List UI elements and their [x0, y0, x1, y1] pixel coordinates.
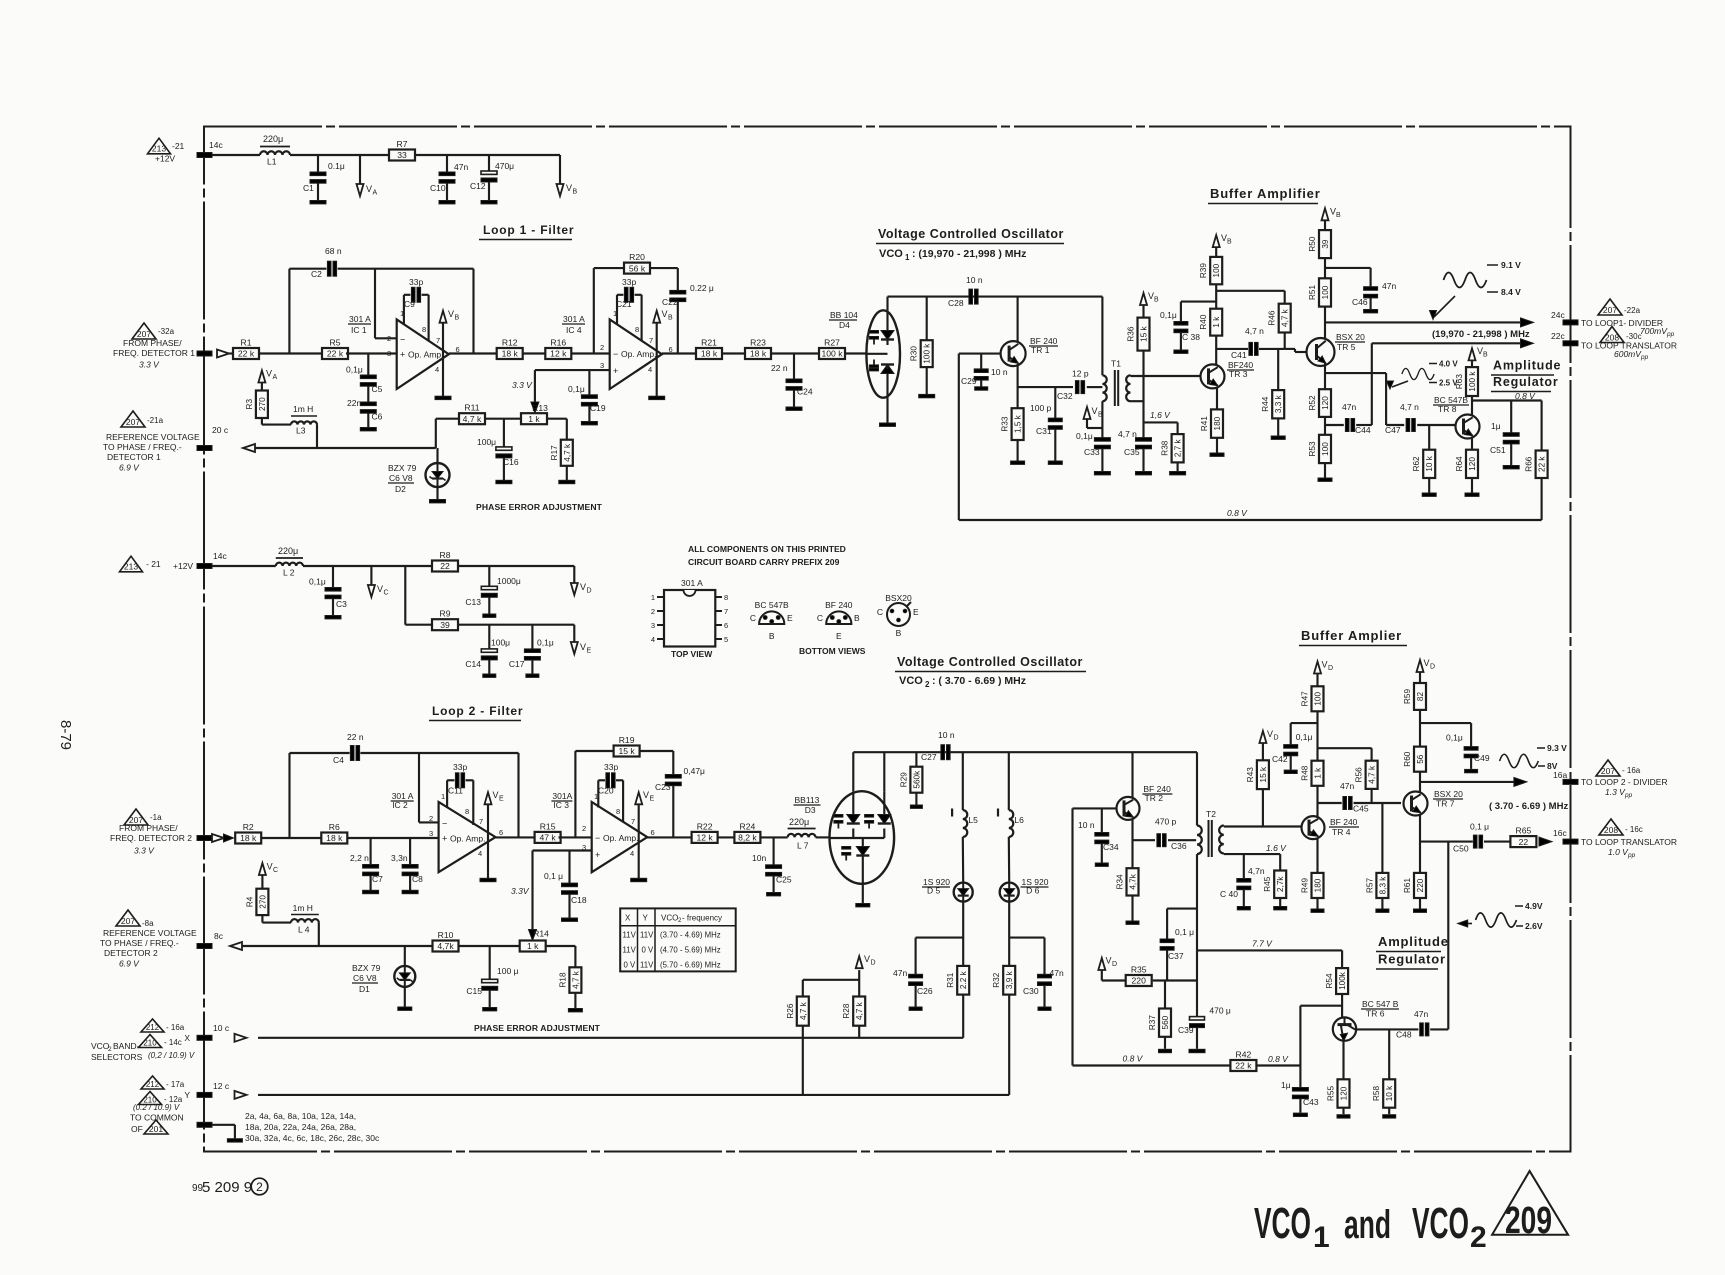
document number 995 209 9 2 — [192, 1178, 268, 1196]
labels BB113 D3 — [794, 795, 821, 815]
resistor R46 — [1268, 304, 1291, 333]
svg-text:R9: R9 — [440, 609, 451, 619]
title Voltage Controlled Oscillator VCO2 — [895, 655, 1086, 689]
resistor R3 — [245, 391, 268, 419]
capacitor C15 100u — [466, 946, 518, 1011]
supply VD at R28 — [856, 954, 876, 968]
svg-text:R39: R39 — [1199, 263, 1208, 278]
svg-text:T2: T2 — [1206, 809, 1216, 819]
svg-text:R15: R15 — [540, 821, 556, 831]
svg-text:R26: R26 — [786, 1003, 795, 1018]
svg-text:-32a: -32a — [158, 327, 175, 336]
svg-text:TR 2: TR 2 — [1145, 793, 1164, 803]
svg-text:B: B — [1227, 239, 1232, 246]
svg-text:100 k: 100 k — [923, 343, 932, 364]
svg-text:0.1μ: 0.1μ — [328, 161, 345, 171]
resistor R37 560 — [1164, 981, 1166, 1009]
supply VB at IC4 — [649, 309, 673, 400]
wire pin2 to feedback — [375, 269, 397, 339]
wire R40 to TR3 collector — [1215, 336, 1217, 365]
transistor TR7 BSX20 — [1404, 792, 1428, 816]
capacitor C41 4.7n wire — [1216, 326, 1306, 360]
svg-text:8-79: 8-79 — [57, 720, 74, 750]
svg-text:R7: R7 — [397, 139, 408, 149]
svg-text:R21: R21 — [701, 338, 717, 348]
resistor R23 — [745, 338, 771, 360]
capacitor C38 0.1u — [1160, 302, 1216, 354]
resistor R6 — [321, 822, 347, 844]
wire — [846, 352, 867, 354]
resistor R11 — [459, 403, 485, 425]
input pin -1a from phase detector 2 — [197, 834, 234, 842]
svg-text:560: 560 — [1161, 1015, 1170, 1029]
labels BSX20 TR5 — [1335, 332, 1365, 352]
svg-text:210: 210 — [143, 1038, 157, 1047]
wire — [259, 352, 322, 354]
svg-text:R22: R22 — [697, 821, 713, 831]
svg-text:6.9 V: 6.9 V — [119, 463, 140, 473]
svg-text:209: 209 — [1505, 1200, 1552, 1242]
IC4 pin3 reference wire 3.3V — [512, 370, 610, 413]
svg-text:(5.70 - 6.69) MHz: (5.70 - 6.69) MHz — [660, 961, 721, 970]
connector triangle 213 -21 +12V — [148, 138, 185, 163]
svg-text:47n: 47n — [1414, 1009, 1428, 1019]
svg-text:R48: R48 — [1301, 765, 1310, 780]
capacitor C44 47n — [1325, 343, 1372, 435]
svg-text:R36: R36 — [1127, 326, 1136, 341]
resistor R1 — [233, 338, 259, 360]
svg-text:R18: R18 — [558, 972, 567, 987]
IC3 pin3 wire and R14 arrow — [511, 851, 592, 941]
resistor R28 — [842, 997, 865, 1026]
resistor R45 2.7k — [1266, 843, 1287, 871]
wire R51 to TR5 and 24c output — [1325, 307, 1534, 339]
svg-text:6: 6 — [724, 621, 728, 630]
svg-text:R54: R54 — [1325, 973, 1334, 988]
svg-text:208: 208 — [1604, 825, 1618, 835]
inductor L4 1mH — [291, 903, 319, 935]
svg-text:R23: R23 — [750, 338, 766, 348]
resistor R22 — [692, 821, 718, 843]
svg-text:301 A: 301 A — [681, 578, 703, 588]
svg-text:1.0 V: 1.0 V — [1608, 847, 1629, 857]
label TO LOOP TRANSLATOR — [1581, 341, 1677, 362]
labels BC547B TR6 — [1361, 999, 1399, 1019]
resistor R48 — [1301, 761, 1324, 786]
svg-text:R16: R16 — [550, 338, 566, 348]
svg-text:R64: R64 — [1455, 456, 1464, 471]
wire — [718, 836, 734, 838]
svg-text:1000μ: 1000μ — [497, 576, 521, 586]
resistor R44 — [1261, 390, 1284, 418]
svg-text:BZX 79: BZX 79 — [352, 963, 381, 973]
svg-text:4,7 n: 4,7 n — [1118, 429, 1137, 439]
zener diode D2 BZX79 C6V8 — [426, 448, 450, 503]
svg-text:0,1μ: 0,1μ — [309, 577, 326, 587]
svg-text:: (19,970 - 21,998 ) MHz: : (19,970 - 21,998 ) MHz — [912, 248, 1026, 260]
svg-text:Amplitude: Amplitude — [1493, 359, 1561, 373]
svg-text:2.6V: 2.6V — [1525, 921, 1543, 931]
wire — [559, 836, 592, 838]
svg-text:C37: C37 — [1168, 951, 1184, 961]
resistor R49 — [1301, 873, 1324, 898]
title Loop 2 - Filter — [429, 704, 523, 721]
svg-text:10 n: 10 n — [1078, 820, 1095, 830]
label FROM PHASE/FREQ. DETECTOR 2 — [110, 823, 192, 856]
svg-text:V: V — [448, 309, 454, 319]
svg-text:C25: C25 — [776, 875, 792, 885]
resistor R62 — [1412, 450, 1435, 478]
capacitor C7 2.2n — [350, 838, 383, 894]
capacitor C33 0.1u — [1076, 401, 1110, 475]
svg-text:0,1 μ: 0,1 μ — [1175, 927, 1194, 937]
svg-text:9.3 V: 9.3 V — [1547, 743, 1567, 753]
transformer T1 — [1102, 297, 1130, 406]
reference 20c wire — [197, 425, 436, 452]
svg-text:B: B — [455, 315, 460, 322]
svg-text:(0.2 / 10.9) V: (0.2 / 10.9) V — [133, 1103, 180, 1112]
svg-text:−: − — [595, 833, 600, 843]
svg-text:E: E — [587, 648, 592, 655]
svg-text:4,7 k: 4,7 k — [463, 414, 482, 424]
capacitor C27 10n — [921, 730, 955, 762]
svg-text:14c: 14c — [209, 140, 223, 150]
resistor R35 — [1126, 965, 1152, 987]
svg-text:3: 3 — [600, 361, 604, 370]
svg-text:1 k: 1 k — [527, 941, 539, 951]
svg-text:DETECTOR 2: DETECTOR 2 — [104, 948, 158, 958]
svg-text:TR 6: TR 6 — [1366, 1009, 1385, 1019]
svg-text:D: D — [1430, 664, 1435, 671]
svg-text:BOTTOM VIEWS: BOTTOM VIEWS — [799, 646, 866, 656]
op-amp IC4 +- and text — [613, 349, 656, 376]
D4 ground — [880, 423, 896, 426]
svg-text:R8: R8 — [440, 550, 451, 560]
svg-text:18 k: 18 k — [701, 349, 718, 359]
connector triangle 207 -8a — [116, 910, 154, 928]
svg-text:FREQ. DETECTOR 1: FREQ. DETECTOR 1 — [113, 348, 195, 358]
feedback capacitor C4 22n loop — [290, 732, 519, 838]
svg-text:PHASE ERROR ADJUSTMENT: PHASE ERROR ADJUSTMENT — [474, 1023, 601, 1033]
labels BF240 TR1 — [1029, 336, 1058, 355]
svg-text:−: − — [442, 819, 447, 829]
R47 wires and C42 branch — [1291, 711, 1318, 760]
labels BSX20 TR7 — [1433, 789, 1463, 809]
svg-text:pp: pp — [1624, 792, 1633, 799]
svg-text:2: 2 — [256, 1180, 263, 1194]
wire R60 to TR7 and 16a output — [1420, 772, 1527, 793]
svg-text:(0,2 / 10.9) V: (0,2 / 10.9) V — [148, 1051, 195, 1060]
svg-text:C18: C18 — [571, 895, 587, 905]
resistor R18 — [558, 967, 581, 993]
svg-text:T1: T1 — [1111, 359, 1121, 369]
capacitor C25 10n — [752, 837, 792, 896]
svg-text:8: 8 — [616, 807, 620, 816]
resistor R7 — [389, 139, 415, 161]
capacitor C30 47n — [1023, 938, 1064, 1011]
svg-text:R19: R19 — [619, 735, 635, 745]
svg-text:47n: 47n — [1342, 402, 1356, 412]
svg-text:1: 1 — [1313, 1221, 1330, 1254]
svg-text:B: B — [1336, 212, 1341, 219]
resistor R38 — [1161, 434, 1184, 462]
svg-text:R35: R35 — [1131, 965, 1147, 975]
svg-text:6: 6 — [651, 828, 655, 837]
svg-text:Op. Amp.: Op. Amp. — [621, 349, 656, 359]
connector triangle 207 -32a — [132, 323, 175, 339]
supply VB at R50 — [1322, 207, 1342, 231]
svg-text:4: 4 — [648, 365, 652, 374]
diode D6 1S920 — [1000, 837, 1019, 902]
VCO1 top rail — [888, 297, 1103, 311]
resistor R61 — [1403, 873, 1426, 898]
resistor R55 — [1327, 1079, 1350, 1107]
svg-text:R60: R60 — [1403, 751, 1412, 766]
inductor L1 220u — [260, 134, 290, 167]
svg-text:R12: R12 — [502, 338, 518, 348]
svg-text:BB113: BB113 — [795, 795, 820, 805]
svg-text:IC 1: IC 1 — [351, 325, 367, 335]
svg-text:B: B — [1483, 352, 1488, 359]
1.6V node and R38 — [1144, 410, 1178, 434]
svg-text:100: 100 — [1321, 442, 1330, 456]
svg-text:7: 7 — [631, 817, 635, 826]
svg-text:2,7 k: 2,7 k — [1174, 438, 1183, 457]
svg-text:TR 5: TR 5 — [1337, 342, 1356, 352]
svg-text:C2: C2 — [311, 269, 322, 279]
svg-text:L 4: L 4 — [298, 925, 310, 935]
svg-text:4,7k: 4,7k — [1129, 873, 1138, 889]
7.7V wire — [1197, 939, 1342, 951]
svg-text:D: D — [871, 960, 876, 967]
svg-text:1m H: 1m H — [293, 404, 313, 414]
resistor R59 — [1403, 683, 1426, 710]
svg-text:TO PHASE / FREQ.-: TO PHASE / FREQ.- — [103, 442, 182, 452]
svg-text:2: 2 — [1470, 1221, 1487, 1254]
resistor R13 — [521, 403, 548, 424]
svg-text:47 k: 47 k — [539, 833, 556, 843]
svg-text:R11: R11 — [464, 403, 479, 413]
title Voltage Controlled Oscillator VCO1 — [876, 227, 1064, 262]
sheet triangle 209 — [1492, 1171, 1568, 1242]
wire — [761, 836, 788, 838]
op-amp IC3 — [592, 802, 648, 872]
svg-text:V: V — [266, 369, 272, 379]
svg-text:FROM PHASE/: FROM PHASE/ — [123, 338, 182, 348]
TR2 emitter wire — [1131, 820, 1133, 869]
svg-text:10 n: 10 n — [938, 730, 955, 740]
svg-text:R29: R29 — [899, 772, 908, 787]
resistor R36 — [1127, 318, 1150, 351]
resistor R28 4.7k — [803, 970, 859, 996]
svg-text:C23: C23 — [655, 782, 671, 792]
compensation capacitor C20 33p loop — [598, 762, 623, 822]
svg-text:12 p: 12 p — [1072, 369, 1089, 379]
pin 16a — [1553, 770, 1578, 784]
svg-text:47n: 47n — [1340, 781, 1354, 791]
svg-text:R34: R34 — [1116, 874, 1125, 889]
sine symbol 9.3V/8V — [1500, 743, 1568, 771]
svg-text:100 p: 100 p — [1030, 403, 1052, 413]
resistor R66 — [1525, 451, 1548, 479]
svg-text:0,1μ: 0,1μ — [1076, 431, 1093, 441]
wire — [290, 154, 560, 156]
svg-text:7.7 V: 7.7 V — [1252, 939, 1273, 949]
D6 cathode wire — [1009, 902, 1044, 966]
svg-text:1: 1 — [651, 593, 655, 602]
svg-text:470 μ: 470 μ — [1209, 1006, 1231, 1016]
svg-text:- frequency: - frequency — [682, 914, 722, 923]
resistor R60 — [1403, 747, 1426, 772]
resistor R17 4.7k — [545, 418, 547, 420]
svg-text:C31: C31 — [1036, 426, 1052, 436]
svg-text:100 μ: 100 μ — [497, 966, 519, 976]
common ground pin — [197, 1122, 242, 1142]
svg-text:R4: R4 — [245, 896, 254, 907]
svg-text:VCO: VCO — [879, 248, 903, 260]
svg-text:B: B — [573, 189, 578, 196]
svg-text:24c: 24c — [1551, 310, 1565, 320]
svg-text:2a, 4a, 6a, 8a, 10a, 12a,: 2a, 4a, 6a, 8a, 10a, 12a, 14a, — [245, 1111, 356, 1121]
svg-text:0,1μ: 0,1μ — [537, 638, 554, 648]
svg-text:2,2 n: 2,2 n — [350, 853, 369, 863]
svg-text:C19: C19 — [590, 403, 606, 413]
svg-text:B: B — [1098, 412, 1103, 419]
labels BB104 D4 — [829, 310, 858, 330]
svg-text:C16: C16 — [503, 457, 519, 467]
svg-text:33p: 33p — [453, 762, 467, 772]
svg-text:7: 7 — [649, 336, 653, 345]
svg-text:V: V — [1424, 658, 1430, 668]
svg-text:0 V: 0 V — [624, 961, 637, 970]
svg-text:R46: R46 — [1268, 310, 1277, 325]
svg-text:207: 207 — [126, 417, 140, 427]
svg-text:100k: 100k — [1338, 971, 1347, 990]
resistor R32 — [992, 966, 1015, 995]
TR8 emitter to R64 — [1471, 437, 1473, 450]
svg-text:20 c: 20 c — [212, 425, 229, 435]
wire — [303, 565, 574, 567]
svg-text:4: 4 — [435, 365, 439, 374]
resistor R21 — [696, 338, 722, 360]
capacitor C16 100u — [477, 419, 519, 484]
op-amp IC1 — [397, 319, 449, 389]
svg-text:2: 2 — [925, 680, 930, 689]
svg-text:- 17a: - 17a — [166, 1080, 185, 1089]
svg-text:0.8 V: 0.8 V — [1123, 1054, 1144, 1064]
connector triangle 208 -16c output — [1599, 819, 1643, 835]
resistor R19 — [614, 735, 640, 757]
svg-text:180: 180 — [1213, 416, 1222, 430]
title Buffer Amplifier — [1208, 186, 1321, 204]
resistor R64 — [1455, 450, 1478, 478]
capacitor C47 4.7n — [1385, 402, 1456, 435]
D5 cathode wire — [916, 902, 964, 966]
svg-text:R55: R55 — [1327, 1086, 1336, 1101]
svg-text:11V: 11V — [623, 946, 637, 955]
svg-text:-1a: -1a — [150, 813, 162, 822]
feedback resistor R19 15k loop — [575, 751, 673, 837]
op-amp IC4 — [610, 319, 662, 389]
svg-text:4,7 k: 4,7 k — [563, 443, 572, 462]
svg-text:5: 5 — [724, 635, 728, 644]
svg-text:470 p: 470 p — [1155, 817, 1177, 827]
capacitor C10 47n — [430, 155, 468, 204]
capacitor C1 0.1u — [303, 155, 345, 204]
svg-text:82: 82 — [1416, 692, 1425, 702]
svg-text:C26: C26 — [917, 986, 933, 996]
arrow to TR8 wire — [1387, 381, 1409, 389]
title Amplitude Regulator 1 — [1491, 359, 1561, 392]
svg-text:220: 220 — [1416, 878, 1425, 892]
svg-text:18 k: 18 k — [240, 833, 257, 843]
supply VB at R39 — [1213, 233, 1232, 257]
svg-text:2,7k: 2,7k — [1276, 876, 1285, 892]
svg-text:30a, 32a, 4c, 6c, 18c, 26c,: 30a, 32a, 4c, 6c, 18c, 26c, 28c, 30c — [245, 1133, 380, 1143]
svg-text:- 14c: - 14c — [164, 1038, 182, 1047]
svg-text:C32: C32 — [1057, 391, 1073, 401]
svg-text:C: C — [750, 613, 756, 623]
svg-text:0,1 μ: 0,1 μ — [1470, 822, 1489, 832]
supply VB at R36 — [1140, 291, 1159, 318]
svg-text:4: 4 — [651, 635, 655, 644]
svg-text:100 k: 100 k — [821, 349, 843, 359]
svg-text:4.0 V: 4.0 V — [1439, 360, 1458, 369]
capacitor C36 470p — [1133, 817, 1197, 852]
svg-text:D3: D3 — [805, 805, 816, 815]
resistor R43 — [1246, 760, 1269, 789]
resistor R40 — [1199, 309, 1222, 336]
svg-text:VCO: VCO — [1412, 1199, 1469, 1248]
svg-text:L6: L6 — [1014, 815, 1024, 825]
capacitor C34 10n — [1078, 808, 1119, 866]
svg-text:- 21: - 21 — [146, 559, 161, 569]
svg-text:R52: R52 — [1308, 395, 1317, 410]
resistor R62 10k — [1428, 425, 1430, 450]
svg-text:16a: 16a — [1553, 770, 1567, 780]
resistor R15 — [535, 821, 561, 843]
svg-text:11V: 11V — [640, 931, 654, 940]
capacitor C49 0.1u — [1446, 733, 1490, 773]
resistor R31 — [946, 966, 969, 995]
capacitor C37 0.1u — [1160, 927, 1194, 980]
svg-text:22 k: 22 k — [1538, 456, 1547, 472]
supply VD at R47 — [1314, 660, 1333, 687]
svg-text:C4: C4 — [333, 755, 344, 765]
resistor R39 — [1199, 257, 1222, 284]
svg-text:X: X — [625, 914, 631, 923]
svg-text:1.6 V: 1.6 V — [1266, 843, 1287, 853]
supply VB at IC1 — [435, 309, 460, 400]
svg-text:R13: R13 — [532, 403, 548, 413]
inductor L5 with core — [952, 752, 978, 837]
svg-text:D 6: D 6 — [1026, 886, 1040, 896]
svg-text:270: 270 — [258, 895, 267, 909]
capacitor C18 0.1u — [544, 851, 587, 922]
TR6 collector wire to C48 — [1356, 1028, 1418, 1030]
Y band select wire 12c — [184, 1081, 1009, 1100]
svg-text:4,7 k: 4,7 k — [1368, 765, 1377, 784]
svg-text:18 k: 18 k — [502, 349, 519, 359]
R59 wires and C49 branch — [1420, 710, 1471, 747]
svg-text:C51: C51 — [1490, 445, 1506, 455]
svg-text:V: V — [493, 790, 499, 800]
supply VE at IC3 — [631, 790, 655, 882]
capacitor C45 47n wire — [1318, 781, 1402, 814]
svg-text:R10: R10 — [438, 930, 454, 940]
svg-text:- 16c: - 16c — [1625, 825, 1643, 834]
resistor R5 — [322, 338, 348, 360]
